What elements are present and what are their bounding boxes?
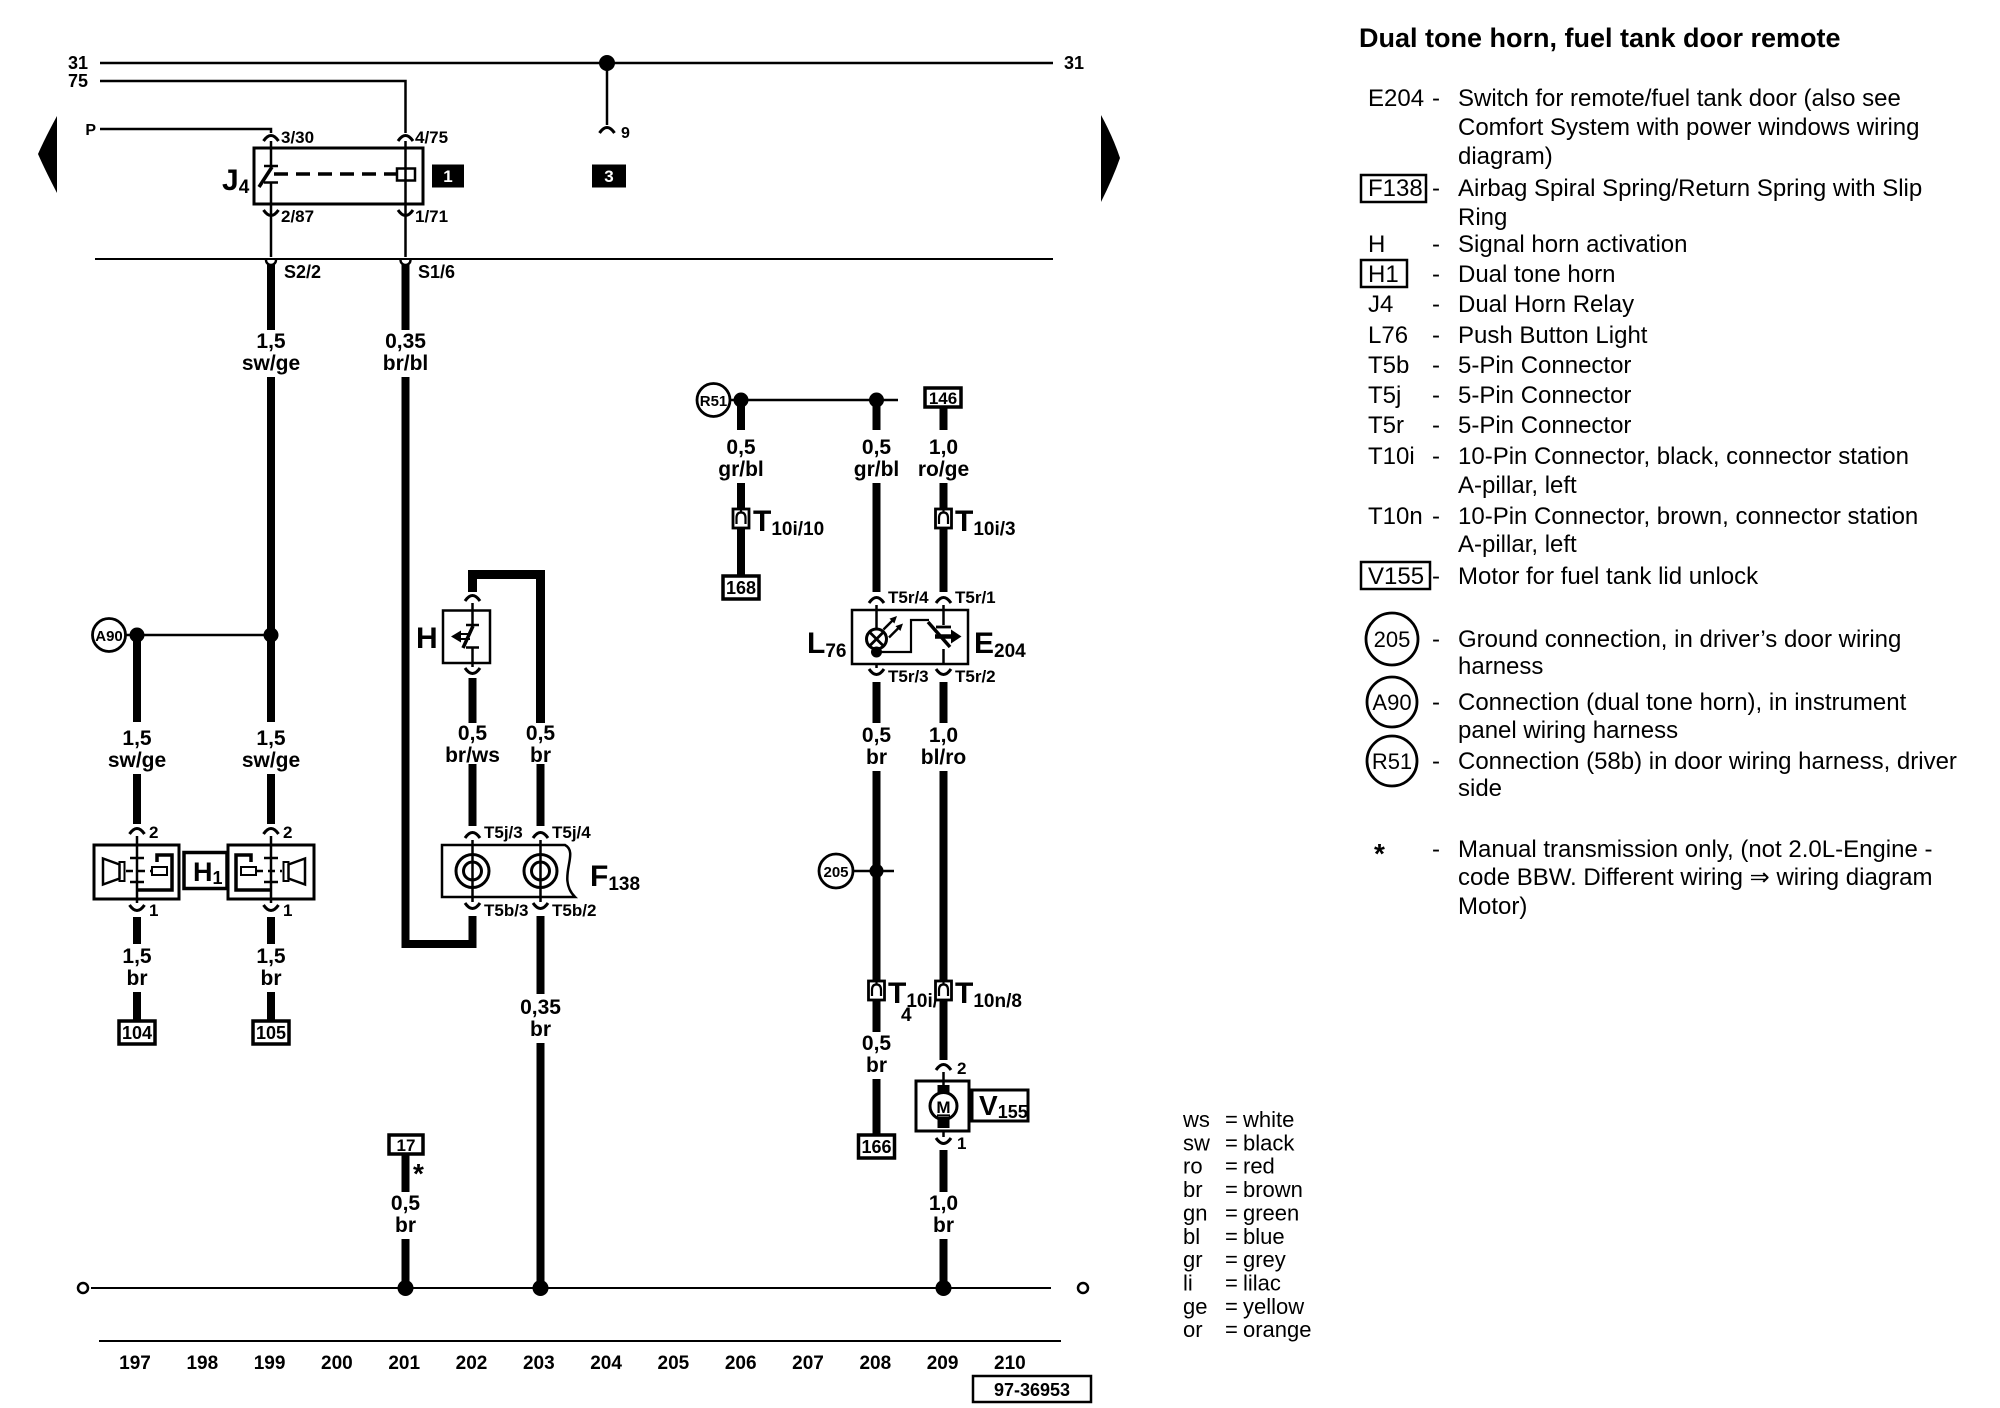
svg-text:gn: gn xyxy=(1183,1200,1207,1225)
horn H1 right body box xyxy=(228,845,314,899)
wire: 1,5 sw/ge from S2/2 down (upper segment) xyxy=(267,260,275,330)
svg-text:=: = xyxy=(1225,1294,1238,1319)
slip ring contact left xyxy=(456,845,489,897)
svg-text:T5j/4: T5j/4 xyxy=(552,823,591,842)
current track number box 1 xyxy=(432,165,464,188)
connector T5j/3 chevron xyxy=(465,833,480,839)
colour code table xyxy=(1182,1107,1312,1342)
svg-text:Connection (58b) in door wirin: Connection (58b) in door wiring harness,… xyxy=(1458,748,1957,775)
legend entry T5j xyxy=(1368,382,1631,409)
svg-text:1: 1 xyxy=(149,901,158,920)
continuation arrow left edge xyxy=(38,116,57,193)
connector T5r/2 hook xyxy=(936,669,951,675)
junction dot rail track 201 xyxy=(398,1280,414,1296)
svg-text:=: = xyxy=(1225,1130,1238,1155)
svg-text:0,5: 0,5 xyxy=(391,1192,421,1215)
svg-text:code BBW. Different wiring ⇒ w: code BBW. Different wiring ⇒ wiring diag… xyxy=(1458,864,1933,891)
designation box 146 xyxy=(925,388,961,408)
connector chevron above H xyxy=(465,596,480,602)
svg-text:205: 205 xyxy=(658,1353,690,1374)
connector T5r/3 hook xyxy=(869,669,884,675)
svg-text:Motor for fuel tank lid unlock: Motor for fuel tank lid unlock xyxy=(1458,563,1759,590)
svg-text:bl/ro: bl/ro xyxy=(921,746,967,769)
svg-text:=: = xyxy=(1225,1154,1238,1179)
svg-text:5-Pin Connector: 5-Pin Connector xyxy=(1458,352,1631,379)
connector T5j/4 chevron xyxy=(533,833,548,839)
relay J4 switch contact xyxy=(259,141,278,204)
svg-text:-: - xyxy=(1432,382,1440,409)
svg-text:green: green xyxy=(1243,1200,1299,1225)
svg-text:T5r: T5r xyxy=(1368,412,1404,439)
connector T5b/3 hook xyxy=(465,903,480,909)
svg-text:146: 146 xyxy=(929,389,957,408)
svg-text:br: br xyxy=(127,967,148,990)
ground rail xyxy=(91,1287,1051,1289)
wire: 0,35 br/bl from S1/6 down (upper segment) xyxy=(402,260,410,330)
svg-text:203: 203 xyxy=(523,1353,555,1374)
legend entry connection R51 circled xyxy=(1367,736,1957,802)
svg-text:ro/ge: ro/ge xyxy=(918,458,969,481)
svg-text:T5j: T5j xyxy=(1368,382,1401,409)
svg-text:-: - xyxy=(1432,748,1440,775)
svg-text:ws: ws xyxy=(1182,1107,1210,1132)
relay J4 coil symbol xyxy=(397,169,415,181)
junction dot rail track 203 xyxy=(533,1280,549,1296)
svg-text:red: red xyxy=(1243,1154,1275,1179)
svg-text:206: 206 xyxy=(725,1353,757,1374)
horn H1 right internals xyxy=(236,845,305,899)
svg-text:Signal horn activation: Signal horn activation xyxy=(1458,231,1687,258)
svg-text:3/30: 3/30 xyxy=(281,128,314,147)
wire: relay left leg to S2/2 xyxy=(270,204,273,257)
svg-text:br: br xyxy=(866,746,887,769)
wire: 1,5 br right lower xyxy=(267,992,275,1021)
svg-text:166: 166 xyxy=(861,1137,891,1157)
svg-text:V155: V155 xyxy=(1368,563,1424,590)
wire: into left horn xyxy=(136,836,139,845)
svg-text:-: - xyxy=(1432,563,1440,590)
svg-text:1,5: 1,5 xyxy=(256,727,286,750)
svg-text:205: 205 xyxy=(823,864,848,881)
svg-text:panel wiring harness: panel wiring harness xyxy=(1458,717,1678,744)
svg-text:gr: gr xyxy=(1183,1247,1203,1272)
svg-text:97-36953: 97-36953 xyxy=(994,1380,1070,1400)
current track number box 3 xyxy=(592,165,626,188)
relay J4 pin 1/71 hook xyxy=(398,210,413,216)
switch E204 contact symbol xyxy=(928,622,962,664)
wire: 0,5 br below T10i/4 xyxy=(873,1000,881,1032)
wire: stub into V155 xyxy=(942,1072,945,1087)
motor V155 box xyxy=(916,1081,969,1131)
svg-text:br/ws: br/ws xyxy=(445,744,500,767)
horn activation H hook below box xyxy=(465,668,480,674)
wire: 1,5 br left upper xyxy=(136,899,139,944)
svg-text:br: br xyxy=(261,967,282,990)
svg-text:5-Pin Connector: 5-Pin Connector xyxy=(1458,412,1631,439)
wire: thick loop over H to right leg xyxy=(473,575,541,724)
ground rail left terminal circle xyxy=(78,1283,88,1293)
label: wire gauge 0,35 br xyxy=(520,996,561,1041)
svg-text:-: - xyxy=(1432,291,1440,318)
svg-text:T10i: T10i xyxy=(1368,443,1415,470)
svg-text:=: = xyxy=(1225,1107,1238,1132)
svg-text:sw: sw xyxy=(1183,1130,1210,1155)
wire: ro/ge to T10i/3 xyxy=(940,483,948,509)
svg-text:=: = xyxy=(1225,1317,1238,1342)
svg-text:9: 9 xyxy=(621,125,630,142)
wire: 0,5 br/ws lower segment above T5j/3 xyxy=(469,764,477,826)
wire: stub chevron to H box xyxy=(471,603,474,611)
connector T5r/1 chevron xyxy=(936,598,951,604)
svg-text:ge: ge xyxy=(1183,1294,1207,1319)
relay J4 pin 4/75 chevron xyxy=(398,136,413,142)
svg-text:ro: ro xyxy=(1183,1154,1203,1179)
svg-text:205: 205 xyxy=(1374,627,1411,652)
svg-text:blue: blue xyxy=(1243,1224,1285,1249)
label: wire gauge 0,5 br (track 201) xyxy=(391,1192,421,1237)
svg-text:168: 168 xyxy=(726,578,756,598)
wire: 0,35 br below T5b/2 upper xyxy=(537,916,545,994)
svg-text:2: 2 xyxy=(149,823,158,842)
svg-text:1: 1 xyxy=(443,167,452,186)
svg-text:A-pillar, left: A-pillar, left xyxy=(1458,531,1577,558)
svg-text:=: = xyxy=(1225,1224,1238,1249)
legend entry asterisk note xyxy=(1374,836,1933,920)
svg-text:4: 4 xyxy=(901,1005,912,1026)
wire: bus 75 horizontal with corner down to relay pin 4/75 xyxy=(100,81,406,133)
label: wire gauge 0,5 br (bottom) xyxy=(862,1032,892,1077)
push button light L76 lamp symbol xyxy=(867,616,904,649)
label: wire gauge 1,0 bl/ro xyxy=(921,724,967,769)
svg-text:R51: R51 xyxy=(700,393,728,410)
switch unit L76/E204 box xyxy=(852,610,968,664)
svg-text:-: - xyxy=(1432,689,1440,716)
svg-text:17: 17 xyxy=(397,1136,416,1155)
svg-text:2/87: 2/87 xyxy=(281,207,314,226)
svg-text:br: br xyxy=(1183,1177,1203,1202)
horn pin 1 hook (left) xyxy=(130,905,145,911)
svg-text:5-Pin Connector: 5-Pin Connector xyxy=(1458,382,1631,409)
svg-text:T5r/2: T5r/2 xyxy=(955,667,996,686)
terminal 9 connector chevron xyxy=(600,128,615,134)
legend entry T10i xyxy=(1368,443,1909,499)
legend entry T5b xyxy=(1368,352,1631,379)
svg-text:R51: R51 xyxy=(1372,749,1412,774)
svg-text:-: - xyxy=(1432,626,1440,653)
svg-text:Motor): Motor) xyxy=(1458,893,1527,920)
svg-text:T5b/2: T5b/2 xyxy=(552,901,596,920)
svg-text:1: 1 xyxy=(957,1134,966,1153)
label: wire gauge 1,5 br (right) xyxy=(256,945,286,990)
wire: 1,0 br to ground rail xyxy=(940,1239,948,1288)
svg-text:1,0: 1,0 xyxy=(929,724,958,747)
svg-text:Connection (dual tone horn), i: Connection (dual tone horn), in instrume… xyxy=(1458,689,1907,716)
track numbers 197-210 xyxy=(119,1353,1026,1374)
legend entry T5r xyxy=(1368,412,1631,439)
svg-text:Switch for remote/fuel tank do: Switch for remote/fuel tank door (also s… xyxy=(1458,85,1901,112)
svg-text:Ring: Ring xyxy=(1458,204,1507,231)
wire: 1,5 sw/ge continues to A90 junction and to horn xyxy=(267,377,275,722)
wire: stub H box to hook xyxy=(471,663,474,667)
relay J4 pin 3/30 chevron xyxy=(264,136,279,142)
svg-text:10-Pin Connector, black, conne: 10-Pin Connector, black, connector stati… xyxy=(1458,443,1909,470)
horn H1 left internals xyxy=(103,845,172,899)
horn H1 left body box xyxy=(94,845,179,899)
svg-text:1,5: 1,5 xyxy=(122,945,152,968)
svg-text:H: H xyxy=(1368,231,1385,258)
svg-text:L76: L76 xyxy=(1368,322,1408,349)
wire: 0,5 br/ws upper segment below H xyxy=(469,678,477,723)
svg-text:0,35: 0,35 xyxy=(385,330,426,353)
svg-text:M: M xyxy=(936,1098,950,1117)
svg-text:br: br xyxy=(866,1054,887,1077)
svg-text:207: 207 xyxy=(792,1353,824,1374)
continuation arrow right edge xyxy=(1101,115,1120,202)
wire: A90 link line xyxy=(126,634,272,637)
horn H1 label box xyxy=(184,853,227,889)
svg-text:sw/ge: sw/ge xyxy=(108,749,166,772)
track number baseline xyxy=(99,1340,1061,1342)
svg-text:197: 197 xyxy=(119,1353,151,1374)
wire: bl/ro down to motor pin 2 xyxy=(940,1000,948,1060)
svg-text:harness: harness xyxy=(1458,653,1543,680)
wire: 1,5 br left lower xyxy=(133,992,141,1021)
label: wire gauge 1,5 sw/ge (left branch) xyxy=(108,727,166,772)
svg-text:=: = xyxy=(1225,1200,1238,1225)
mechanical link line lamp to switch xyxy=(877,620,930,652)
legend entry F138 boxed xyxy=(1361,175,1922,231)
wire: bus 31 horizontal xyxy=(100,62,1053,65)
wire: bl/ro down to T10n/8 xyxy=(940,771,948,981)
label: wire gauge 1,0 ro/ge xyxy=(918,436,969,481)
svg-text:Dual tone horn, fuel tank door: Dual tone horn, fuel tank door remote xyxy=(1359,23,1841,53)
svg-text:A-pillar, left: A-pillar, left xyxy=(1458,472,1577,499)
connector S2/2 cup symbol xyxy=(266,260,276,265)
ground designation box 105 xyxy=(253,1021,289,1044)
svg-text:E204: E204 xyxy=(1368,85,1424,112)
horn pin 2 chevron (right) xyxy=(264,829,279,835)
label: wire gauge 0,5 gr/bl (middle) xyxy=(854,436,900,481)
svg-text:P: P xyxy=(85,122,96,139)
svg-text:or: or xyxy=(1183,1317,1203,1342)
svg-text:diagram): diagram) xyxy=(1458,143,1553,170)
junction dot on gr/bl branch xyxy=(734,393,749,408)
svg-text:br: br xyxy=(933,1214,954,1237)
legend entry J4 xyxy=(1368,291,1634,318)
svg-text:grey: grey xyxy=(1243,1247,1286,1272)
svg-text:sw/ge: sw/ge xyxy=(242,749,300,772)
svg-text:brown: brown xyxy=(1243,1177,1303,1202)
wire: 0,35 br/bl long run with bend to T5b/3 xyxy=(406,377,473,944)
svg-text:Push Button Light: Push Button Light xyxy=(1458,322,1648,349)
svg-text:4/75: 4/75 xyxy=(415,128,448,147)
svg-text:li: li xyxy=(1183,1271,1193,1296)
svg-text:2: 2 xyxy=(957,1059,966,1078)
svg-text:T5j/3: T5j/3 xyxy=(484,823,523,842)
svg-text:br/bl: br/bl xyxy=(383,352,429,375)
svg-text:=: = xyxy=(1225,1271,1238,1296)
svg-text:br: br xyxy=(530,1018,551,1041)
svg-text:31: 31 xyxy=(68,53,88,73)
connector T5b/2 hook xyxy=(533,903,548,909)
svg-text:bl: bl xyxy=(1183,1224,1200,1249)
wire: stub V155 to hook xyxy=(942,1131,945,1137)
wire: into right horn xyxy=(270,836,273,845)
motor pin 2 chevron xyxy=(936,1065,951,1071)
label box V155 xyxy=(972,1090,1028,1122)
junction dot left branch xyxy=(130,628,145,643)
relay J4 coil dashed actuation line xyxy=(274,172,397,176)
svg-text:black: black xyxy=(1243,1130,1295,1155)
svg-text:0,5: 0,5 xyxy=(862,436,892,459)
relay J4 box xyxy=(254,148,423,204)
label: wire gauge 0,5 br/ws xyxy=(445,722,500,767)
svg-text:gr/bl: gr/bl xyxy=(718,458,764,481)
wire: stub T5r/1 into E204 xyxy=(942,605,945,625)
svg-text:orange: orange xyxy=(1243,1317,1312,1342)
connector S1/6 cup symbol xyxy=(401,260,411,265)
horn pin 1 hook (right) xyxy=(264,905,279,911)
svg-text:*: * xyxy=(413,1158,424,1189)
svg-text:1,5: 1,5 xyxy=(256,945,286,968)
svg-text:T5b: T5b xyxy=(1368,352,1409,379)
svg-text:=: = xyxy=(1225,1177,1238,1202)
svg-text:br: br xyxy=(395,1214,416,1237)
svg-text:white: white xyxy=(1242,1107,1294,1132)
fuse box 17 xyxy=(389,1135,423,1155)
label: wire gauge 1,5 br (left) xyxy=(122,945,152,990)
connection R51 circle xyxy=(697,384,730,417)
svg-text:198: 198 xyxy=(186,1353,218,1374)
label: wire gauge 0,35 br/bl xyxy=(383,330,429,375)
svg-text:0,5: 0,5 xyxy=(526,722,556,745)
wire: left branch lower xyxy=(133,774,141,824)
connector T10i/10 symbol xyxy=(733,509,749,528)
legend entry ground 205 circled xyxy=(1366,613,1901,680)
svg-text:-: - xyxy=(1432,412,1440,439)
svg-text:105: 105 xyxy=(256,1023,286,1043)
junction dot on middle gr/bl wire xyxy=(869,393,884,408)
ground rail right terminal circle xyxy=(1078,1283,1088,1293)
wire: middle gr/bl down to T5r/4 xyxy=(873,483,881,592)
svg-text:H1: H1 xyxy=(1368,261,1399,288)
label: wire gauge 1,5 sw/ge (right branch) xyxy=(242,727,300,772)
legend entry V155 boxed xyxy=(1361,562,1759,590)
label: T10i/4 (two lines) xyxy=(888,977,939,1026)
horn activation H switch symbol xyxy=(451,611,479,664)
svg-text:T5r/3: T5r/3 xyxy=(888,667,929,686)
legend entry L76 xyxy=(1368,322,1648,349)
svg-text:J4: J4 xyxy=(1368,291,1393,318)
wire: 1,0 ro/ge upper xyxy=(940,407,948,430)
label: wire gauge 1,5 sw/ge xyxy=(242,330,300,375)
svg-text:201: 201 xyxy=(388,1353,420,1374)
label: wire gauge 0,5 br (track 208) xyxy=(862,724,892,769)
horn pin 2 chevron (left) xyxy=(130,829,145,835)
svg-text:T5r/1: T5r/1 xyxy=(955,588,996,607)
wire: 0,5 gr/bl left upper xyxy=(737,400,745,430)
svg-text:A90: A90 xyxy=(95,628,123,645)
svg-text:3: 3 xyxy=(604,167,613,186)
svg-text:F138: F138 xyxy=(1368,175,1423,202)
connector T5r/4 chevron xyxy=(869,598,884,604)
legend entry E204 xyxy=(1368,85,1919,170)
svg-text:br: br xyxy=(530,744,551,767)
slip ring F138 box with torn right edge xyxy=(442,845,575,897)
svg-text:A90: A90 xyxy=(1372,690,1411,715)
svg-text:*: * xyxy=(1374,838,1385,869)
wire: relay right leg through coil xyxy=(404,141,407,257)
svg-text:T5b/3: T5b/3 xyxy=(484,901,528,920)
svg-text:1,0: 1,0 xyxy=(929,1192,958,1215)
svg-text:104: 104 xyxy=(122,1023,152,1043)
wire: 1,0 br upper xyxy=(940,1150,948,1192)
wire: ro/ge down to T5r/1 xyxy=(940,528,948,592)
legend entry H xyxy=(1368,231,1687,258)
svg-text:-: - xyxy=(1432,261,1440,288)
svg-text:1,5: 1,5 xyxy=(256,330,286,353)
motor V155 symbol xyxy=(930,1085,957,1128)
svg-text:Ground connection, in driver’s: Ground connection, in driver’s door wiri… xyxy=(1458,626,1901,653)
relay J4 pin 2/87 hook xyxy=(264,210,279,216)
wire: bus P horizontal with corner down to relay pin 3/30 xyxy=(100,129,271,133)
legend entry T10n xyxy=(1368,503,1918,558)
wire: R51 link line xyxy=(730,399,898,402)
junction dot rail track 209 xyxy=(936,1280,952,1296)
svg-text:31: 31 xyxy=(1064,53,1084,73)
junction on bus 31 at node 9 xyxy=(599,55,615,71)
wire: right branch lower xyxy=(267,774,275,824)
wire: left horn branch upper xyxy=(133,635,141,722)
wire: stub from F138 to T5b/2 xyxy=(539,897,542,902)
wire: 1,0 bl/ro upper (track 209) xyxy=(940,682,948,723)
ground connection 205 circle xyxy=(819,854,853,888)
wire: 0,5 gr/bl middle upper xyxy=(873,400,881,430)
svg-text:0,5: 0,5 xyxy=(726,436,756,459)
connector T10n/8 symbol xyxy=(936,981,952,1000)
svg-text:Comfort System with power wind: Comfort System with power windows wiring xyxy=(1458,114,1919,141)
svg-text:-: - xyxy=(1432,836,1440,863)
wire: 0,5 br down through 205 junction xyxy=(873,771,881,981)
svg-text:side: side xyxy=(1458,775,1502,802)
junction dot at 205 xyxy=(870,864,884,878)
svg-text:yellow: yellow xyxy=(1243,1294,1304,1319)
wire: stub from bus 31 down to terminal 9 xyxy=(606,63,609,125)
ground designation box 104 xyxy=(119,1021,155,1044)
designation box 166 xyxy=(859,1135,895,1158)
svg-text:-: - xyxy=(1432,503,1440,530)
connector T10i/3 symbol xyxy=(936,509,952,528)
svg-text:2: 2 xyxy=(283,823,292,842)
svg-text:210: 210 xyxy=(994,1353,1026,1374)
svg-text:S1/6: S1/6 xyxy=(418,262,455,282)
svg-text:Dual tone horn: Dual tone horn xyxy=(1458,261,1615,288)
wire: 0,5 br below box 17 upper xyxy=(402,1154,410,1192)
svg-text:1,5: 1,5 xyxy=(122,727,152,750)
svg-text:200: 200 xyxy=(321,1353,353,1374)
svg-text:T10n: T10n xyxy=(1368,503,1423,530)
svg-text:0,5: 0,5 xyxy=(862,1032,892,1055)
svg-text:-: - xyxy=(1432,322,1440,349)
label: wire gauge 0,5 br (right leg) xyxy=(526,722,556,767)
separator line between relay plate and harness xyxy=(95,258,1053,260)
wire: 0,35 br to ground rail xyxy=(537,1043,545,1288)
wire: stub T5j/4 into F138 xyxy=(539,840,542,845)
svg-text:=: = xyxy=(1225,1247,1238,1272)
slip ring contact right xyxy=(524,845,557,897)
wire: 1,5 br right upper xyxy=(270,899,273,944)
svg-text:H: H xyxy=(416,622,438,655)
